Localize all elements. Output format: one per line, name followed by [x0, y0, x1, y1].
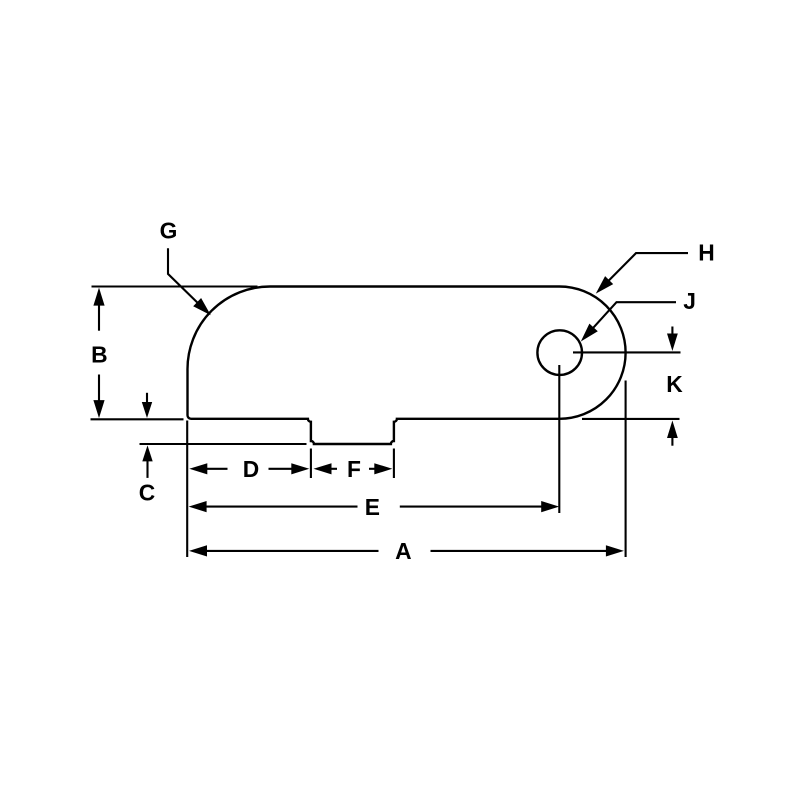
- svg-text:E: E: [365, 494, 380, 520]
- dimension C down arrow: [142, 393, 152, 418]
- part outline: [187, 286, 625, 444]
- extension line top edge: [92, 285, 258, 287]
- label G: [160, 218, 178, 244]
- svg-text:F: F: [347, 456, 361, 482]
- extension line bottom-left edge: [91, 418, 184, 420]
- dimension E right arrow: [400, 501, 559, 512]
- leader J: [581, 302, 676, 341]
- dimension F left arrow: [314, 463, 338, 474]
- svg-text:G: G: [160, 218, 178, 244]
- label D: [243, 456, 259, 482]
- extension line notch-left vertical: [310, 449, 312, 479]
- extension line bottom-right horizontal: [582, 418, 680, 420]
- extension line notch bottom: [140, 443, 307, 445]
- label E: [365, 494, 380, 520]
- dimension A right arrow: [431, 545, 624, 556]
- dimension B down arrow: [93, 375, 104, 419]
- svg-text:B: B: [91, 342, 107, 368]
- label H: [698, 240, 714, 266]
- svg-text:C: C: [139, 480, 155, 506]
- svg-text:J: J: [683, 288, 696, 314]
- dimension B up arrow: [93, 288, 104, 331]
- extension line hole-center vertical: [558, 365, 560, 513]
- label K: [666, 371, 683, 397]
- extension line right edge vertical: [625, 381, 627, 558]
- svg-text:D: D: [243, 456, 259, 482]
- extension line notch-right vertical: [393, 449, 395, 479]
- dimension K up arrow: [667, 421, 678, 446]
- dimension E left arrow: [189, 501, 358, 512]
- hole: [537, 330, 582, 375]
- dimension D left arrow: [189, 463, 227, 474]
- label F: [347, 456, 361, 482]
- label J: [683, 288, 696, 314]
- extension line left edge vertical: [186, 421, 188, 558]
- dimension K down arrow: [667, 327, 678, 352]
- label A: [395, 538, 411, 564]
- leader G: [168, 248, 211, 315]
- extension line hole-center horizontal: [573, 351, 681, 353]
- label C: [139, 480, 155, 506]
- dimension C up arrow: [142, 445, 152, 478]
- dimension D right arrow: [269, 463, 310, 474]
- svg-text:K: K: [666, 371, 683, 397]
- svg-text:A: A: [395, 538, 411, 564]
- label B: [91, 342, 107, 368]
- leader H: [596, 253, 688, 294]
- svg-text:H: H: [698, 240, 714, 266]
- dimension F right arrow: [369, 463, 392, 474]
- dimension A left arrow: [189, 545, 379, 556]
